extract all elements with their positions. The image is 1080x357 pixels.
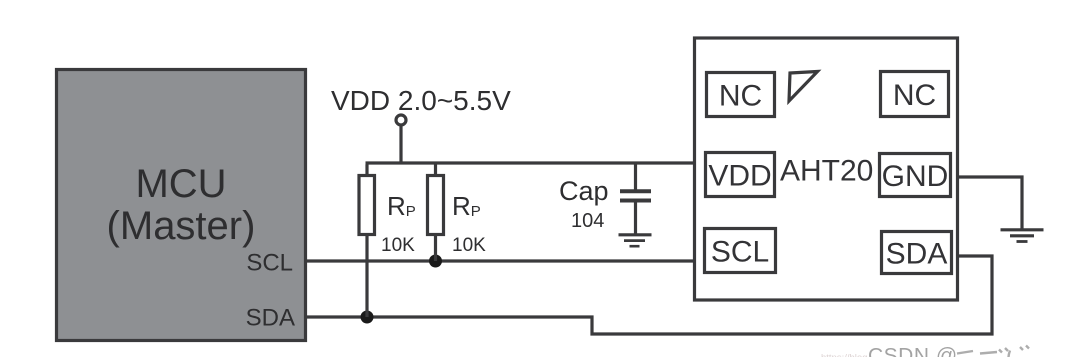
AHT20 U2 outer box [695,38,958,300]
pin-1 marker triangle [789,72,818,102]
svg-text:SDA: SDA [886,238,948,271]
svg-text:NC: NC [719,80,762,113]
wire capacitor top lead [634,163,637,190]
svg-text:10K: 10K [452,235,486,256]
MCU U1 (Master) block [57,70,306,341]
ground symbol at GND pin [1001,230,1044,242]
wire GND to ground [959,177,1022,229]
svg-text:SCL: SCL [711,236,769,269]
svg-text:10K: 10K [381,235,415,256]
svg-text:NC: NC [893,79,936,112]
pin box SDA [882,232,952,274]
watermark hiragana glyph tops [957,346,1029,357]
pin box GND [880,154,951,197]
wire SCL bus (MCU to AHT20) [306,259,694,262]
pin box SCL [705,229,776,273]
capacitor C1 plates [620,191,651,200]
svg-text:CSDN @: CSDN @ [868,345,958,357]
VDD supply terminal circle [396,115,406,125]
svg-text:MCU: MCU [135,162,226,206]
svg-text:SCL: SCL [246,250,293,277]
wire VDD rail with R1 top lead [366,163,695,175]
junction dot on SDA at R1 [361,311,374,324]
pin box VDD [706,153,775,197]
wire R2 top lead [434,163,437,175]
pin box NC (top-left) [707,73,775,117]
svg-text:SDA: SDA [246,305,295,332]
junction dot on SCL at R2 [429,255,442,268]
svg-text:AHT20: AHT20 [780,155,873,188]
svg-text:(Master): (Master) [107,204,256,248]
resistor R2 body [428,176,444,235]
wire R1 bottom lead to SDA [365,236,368,317]
wire SDA bus (MCU to AHT20, stepped route) [306,256,992,334]
wire VDD terminal stub [399,127,402,164]
svg-text:RP: RP [452,191,481,221]
svg-text:RP: RP [387,191,416,221]
svg-text:104: 104 [571,210,604,232]
svg-text:GND: GND [882,160,949,193]
svg-text:VDD 2.0~5.5V: VDD 2.0~5.5V [331,85,511,116]
svg-text:VDD: VDD [708,160,771,193]
pin box NC (top-right) [881,72,949,117]
ground symbol at capacitor [619,235,652,246]
wire R2 bottom lead to SCL [434,236,437,261]
wire capacitor bottom lead [634,202,637,234]
resistor R1 body [359,176,375,235]
svg-text:https://blog: https://blog [821,353,867,357]
svg-text:Cap: Cap [559,176,609,206]
